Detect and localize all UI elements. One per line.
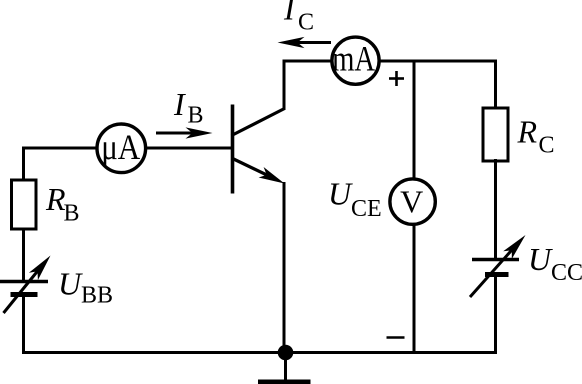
- svg-text:C: C: [298, 10, 314, 36]
- wire: base wire (microammeter to transistor base): [96, 147, 233, 150]
- wire: right branch bottom (UCC to bottom rail): [494, 275, 497, 355]
- wire: right branch middle (RC to UCC): [494, 159, 497, 260]
- label UBB: [58, 266, 113, 309]
- label RC: [517, 114, 555, 159]
- wire: left branch top corner + horizontal to microammeter: [22, 147, 96, 182]
- svg-text:B: B: [64, 201, 80, 227]
- svg-text:μA: μA: [101, 127, 140, 167]
- wire: right branch top (rail down to RC): [494, 60, 497, 111]
- svg-text:B: B: [188, 103, 204, 129]
- svg-text:U: U: [528, 241, 553, 277]
- label RB: [45, 181, 80, 227]
- minus sign: [387, 336, 405, 339]
- label UCE: [328, 176, 382, 223]
- svg-text:U: U: [328, 176, 353, 212]
- label UCC: [528, 241, 582, 286]
- wire: bottom rail: [22, 351, 497, 354]
- svg-text:U: U: [58, 266, 83, 302]
- resistor RC: [483, 108, 508, 161]
- transistor Q (NPN): [232, 105, 285, 194]
- svg-text:I: I: [283, 0, 296, 27]
- svg-text:mA: mA: [332, 38, 375, 78]
- wire: left branch middle (RB to UBB): [22, 229, 25, 283]
- node: emitter junction dot: [278, 345, 294, 361]
- microammeter uA: [97, 124, 146, 173]
- svg-text:V: V: [400, 184, 423, 220]
- svg-text:R: R: [517, 114, 538, 150]
- label IB with arrow: [156, 86, 213, 139]
- svg-text:I: I: [173, 86, 186, 122]
- wire: emitter vertical: [283, 182, 286, 353]
- wire: collector vertical: [283, 61, 286, 110]
- source UBB (adjustable battery): [0, 256, 51, 314]
- resistor RB: [12, 180, 37, 229]
- label IC with arrow: [278, 0, 332, 48]
- svg-text:CC: CC: [551, 260, 582, 286]
- wire: top rail (collector node to right corner): [283, 60, 497, 63]
- ground: [258, 353, 311, 384]
- wire: voltmeter branch top: [413, 61, 416, 180]
- milliammeter mA: [332, 37, 379, 84]
- source UCC (adjustable battery): [470, 235, 526, 297]
- svg-text:BB: BB: [81, 283, 113, 309]
- wire: voltmeter branch bottom: [413, 223, 416, 353]
- voltmeter V: [390, 179, 435, 224]
- svg-text:C: C: [539, 133, 555, 159]
- wire: left branch bottom (UBB to bottom rail): [22, 295, 25, 355]
- plus sign: [389, 71, 404, 86]
- svg-text:CE: CE: [351, 196, 382, 222]
